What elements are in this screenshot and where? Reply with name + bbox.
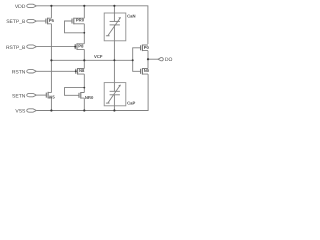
wire P5 drain chain down to N5 — [50, 24, 52, 93]
wire N0 drain to DO — [147, 59, 149, 68]
transistor N0 — [141, 68, 150, 75]
wire PR0 source to VDD rail — [83, 6, 85, 18]
DO terminal — [158, 58, 163, 61]
transistor P8 — [75, 43, 84, 50]
svg-text:N5: N5 — [49, 95, 55, 100]
wire N8 drain to NR0 — [83, 74, 85, 92]
wire P8 drain to VCF — [83, 49, 85, 60]
VDD terminal — [15, 4, 37, 10]
wire SETP_B to P5 gate — [37, 20, 46, 22]
wire CaN bottom to VCF — [113, 41, 115, 61]
capacitor CaP varactor — [106, 83, 121, 106]
svg-text:NR0: NR0 — [85, 95, 94, 100]
svg-text:P8: P8 — [78, 44, 84, 49]
transistor N8 — [76, 68, 85, 75]
wire SETN to N5 gate — [37, 94, 47, 96]
wire N8 source to VCF — [83, 60, 85, 68]
wire NR0 gate diode link — [65, 88, 85, 96]
SETN terminal — [12, 93, 36, 99]
wire CaP bottom to VSS rail — [113, 106, 115, 111]
RSTN terminal — [12, 70, 37, 76]
RSTP_B terminal — [6, 45, 36, 51]
svg-text:N0: N0 — [144, 68, 150, 73]
transistor PR0 — [72, 18, 85, 25]
node VCF wire — [51, 59, 132, 61]
svg-text:SETP_B: SETP_B — [6, 19, 26, 25]
capacitor CaN varactor — [106, 13, 121, 41]
transistor NR0 — [79, 92, 94, 100]
svg-text:RSTN: RSTN — [12, 70, 26, 76]
svg-text:SETN: SETN — [12, 93, 26, 99]
svg-text:P0: P0 — [144, 45, 150, 50]
wire P0 drain to DO — [147, 51, 149, 60]
wire P5 source to VDD rail — [50, 6, 52, 18]
wire VCF to CaP — [113, 60, 115, 82]
svg-text:CaN: CaN — [127, 13, 135, 18]
wire CaN to VDD rail — [113, 6, 115, 13]
wire RSTP_B to P8 gate — [37, 46, 75, 48]
svg-text:VSS: VSS — [15, 109, 26, 115]
transistor P0 — [141, 45, 150, 52]
capacitor CaP box — [104, 83, 126, 106]
transistor P5 — [46, 18, 55, 25]
wire N5 source to VSS rail — [50, 98, 52, 111]
wire DO output — [148, 58, 158, 60]
svg-text:DO: DO — [165, 57, 173, 63]
svg-text:CaP: CaP — [127, 101, 135, 106]
transistor N5 — [46, 92, 55, 100]
svg-text:N8: N8 — [79, 68, 85, 73]
capacitor CaN box — [104, 13, 126, 41]
SETP_B terminal — [6, 19, 36, 25]
wire inverter input — [133, 48, 141, 72]
wire PR0 gate diode link — [65, 21, 85, 33]
svg-text:RSTP_B: RSTP_B — [6, 45, 26, 51]
wire PR0 drain to P8 source — [83, 24, 85, 44]
svg-text:VDD: VDD — [15, 4, 26, 10]
svg-text:P5: P5 — [49, 18, 55, 23]
wire RSTN to N8 gate — [37, 70, 76, 72]
wire NR0 drain to VSS rail — [83, 98, 85, 110]
VSS terminal — [15, 109, 36, 115]
svg-text:VCF: VCF — [94, 54, 103, 59]
wire VSS rail — [37, 74, 148, 110]
wire VDD rail — [37, 6, 148, 44]
svg-text:PR0: PR0 — [76, 18, 85, 23]
junction dots — [50, 5, 149, 112]
